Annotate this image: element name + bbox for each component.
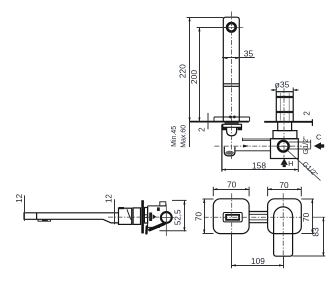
svg-text:Max.60: Max.60 [181, 125, 188, 148]
svg-text:12: 12 [104, 194, 113, 203]
svg-text:200: 200 [189, 70, 199, 84]
svg-text:83: 83 [311, 227, 321, 237]
svg-text:2: 2 [197, 127, 206, 132]
svg-text:12: 12 [15, 193, 24, 202]
svg-text:ø35: ø35 [275, 79, 290, 89]
svg-text:C: C [316, 133, 322, 142]
svg-text:70: 70 [227, 180, 237, 190]
svg-text:Min.45: Min.45 [171, 126, 178, 147]
svg-text:G1/2": G1/2" [301, 159, 321, 179]
svg-text:G1/2": G1/2" [301, 136, 310, 155]
svg-text:70: 70 [193, 212, 203, 222]
svg-text:70: 70 [279, 180, 289, 190]
svg-text:2: 2 [303, 111, 312, 116]
svg-text:35: 35 [244, 49, 254, 59]
svg-text:109: 109 [251, 256, 265, 266]
svg-text:158: 158 [252, 161, 266, 171]
svg-text:H: H [288, 159, 293, 168]
svg-text:70: 70 [301, 212, 311, 222]
svg-text:220: 220 [177, 64, 187, 78]
svg-text:52,5: 52,5 [173, 209, 182, 225]
